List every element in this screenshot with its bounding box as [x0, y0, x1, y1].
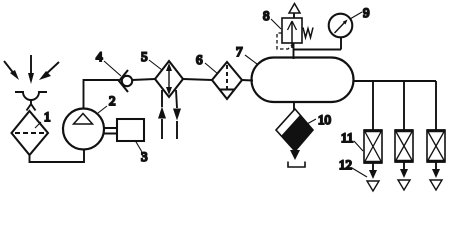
- label 7: [236, 44, 257, 64]
- branch drop 2: [403, 81, 405, 130]
- svg-text:4: 4: [96, 49, 103, 64]
- label 2: [98, 93, 116, 113]
- svg-text:2: 2: [109, 93, 116, 108]
- svg-text:7: 7: [236, 44, 243, 59]
- relief valve 8 (box, arrow, spring, pilot): [277, 4, 313, 50]
- branch drop 1: [372, 81, 374, 130]
- separator 10 (diamond half filled): [276, 109, 313, 151]
- filter 1 (diamond, dashed media line): [12, 111, 49, 155]
- svg-text:1: 1: [44, 109, 51, 124]
- label 6: [196, 52, 218, 74]
- intake arrow right: [39, 62, 59, 80]
- pressure gauge 9: [329, 14, 353, 38]
- drain pit: [288, 162, 305, 168]
- branch drop 3: [435, 81, 437, 130]
- label 3: [136, 141, 148, 164]
- outlet unit 1 (box with X): [364, 130, 382, 163]
- outlet unit 3 (box with X): [427, 130, 445, 162]
- label 12: [339, 157, 367, 177]
- wire filter6 to receiver: [242, 79, 253, 82]
- coolant line out (solid down arrow): [173, 90, 181, 139]
- label 11: [341, 130, 363, 151]
- wire pump to main line: [84, 80, 120, 109]
- label 8: [263, 8, 281, 29]
- outlet arrow 1: [369, 163, 377, 179]
- wire tank top to relief valve and gauge: [294, 37, 342, 59]
- compressor 2 (circle with triangle): [63, 109, 104, 150]
- intake arrow left: [4, 61, 19, 80]
- wire filter1 to pump: [30, 149, 85, 162]
- distribution line right: [353, 80, 436, 82]
- outlet arrow 2: [400, 162, 408, 178]
- exhaust triangle 1: [367, 181, 379, 191]
- label 4: [96, 49, 121, 76]
- motor 3 (box): [117, 119, 144, 141]
- cooler 5 (diamond with double arrow): [155, 61, 183, 97]
- label 10: [307, 112, 331, 127]
- receiver tank 7 (capsule): [252, 58, 354, 103]
- shaft coupling: [104, 128, 118, 134]
- intake funnel: [15, 92, 47, 111]
- svg-text:9: 9: [363, 5, 370, 20]
- wire tank bottom to separator 10: [293, 102, 295, 110]
- svg-text:8: 8: [263, 8, 270, 23]
- wire cooler to filter 6: [183, 79, 212, 80]
- exhaust triangle 3: [430, 180, 442, 190]
- filter-separator 6 (diamond, dashed line, bottom sump): [212, 62, 242, 99]
- svg-text:11: 11: [341, 130, 354, 145]
- svg-text:10: 10: [318, 112, 331, 127]
- wire check valve to cooler: [132, 79, 155, 80]
- coolant line in (solid up arrow): [158, 90, 166, 139]
- svg-text:12: 12: [339, 157, 352, 172]
- label 5: [141, 49, 162, 70]
- exhaust triangle 2: [398, 180, 410, 190]
- label 9: [350, 5, 370, 20]
- svg-text:6: 6: [196, 52, 203, 67]
- outlet arrow 3: [432, 162, 440, 178]
- drain arrow: [290, 150, 300, 160]
- label 1: [35, 109, 51, 128]
- outlet unit 2 (box with X): [395, 130, 413, 162]
- svg-text:5: 5: [141, 49, 148, 64]
- check valve 4: [119, 70, 132, 92]
- intake arrow middle: [28, 55, 34, 84]
